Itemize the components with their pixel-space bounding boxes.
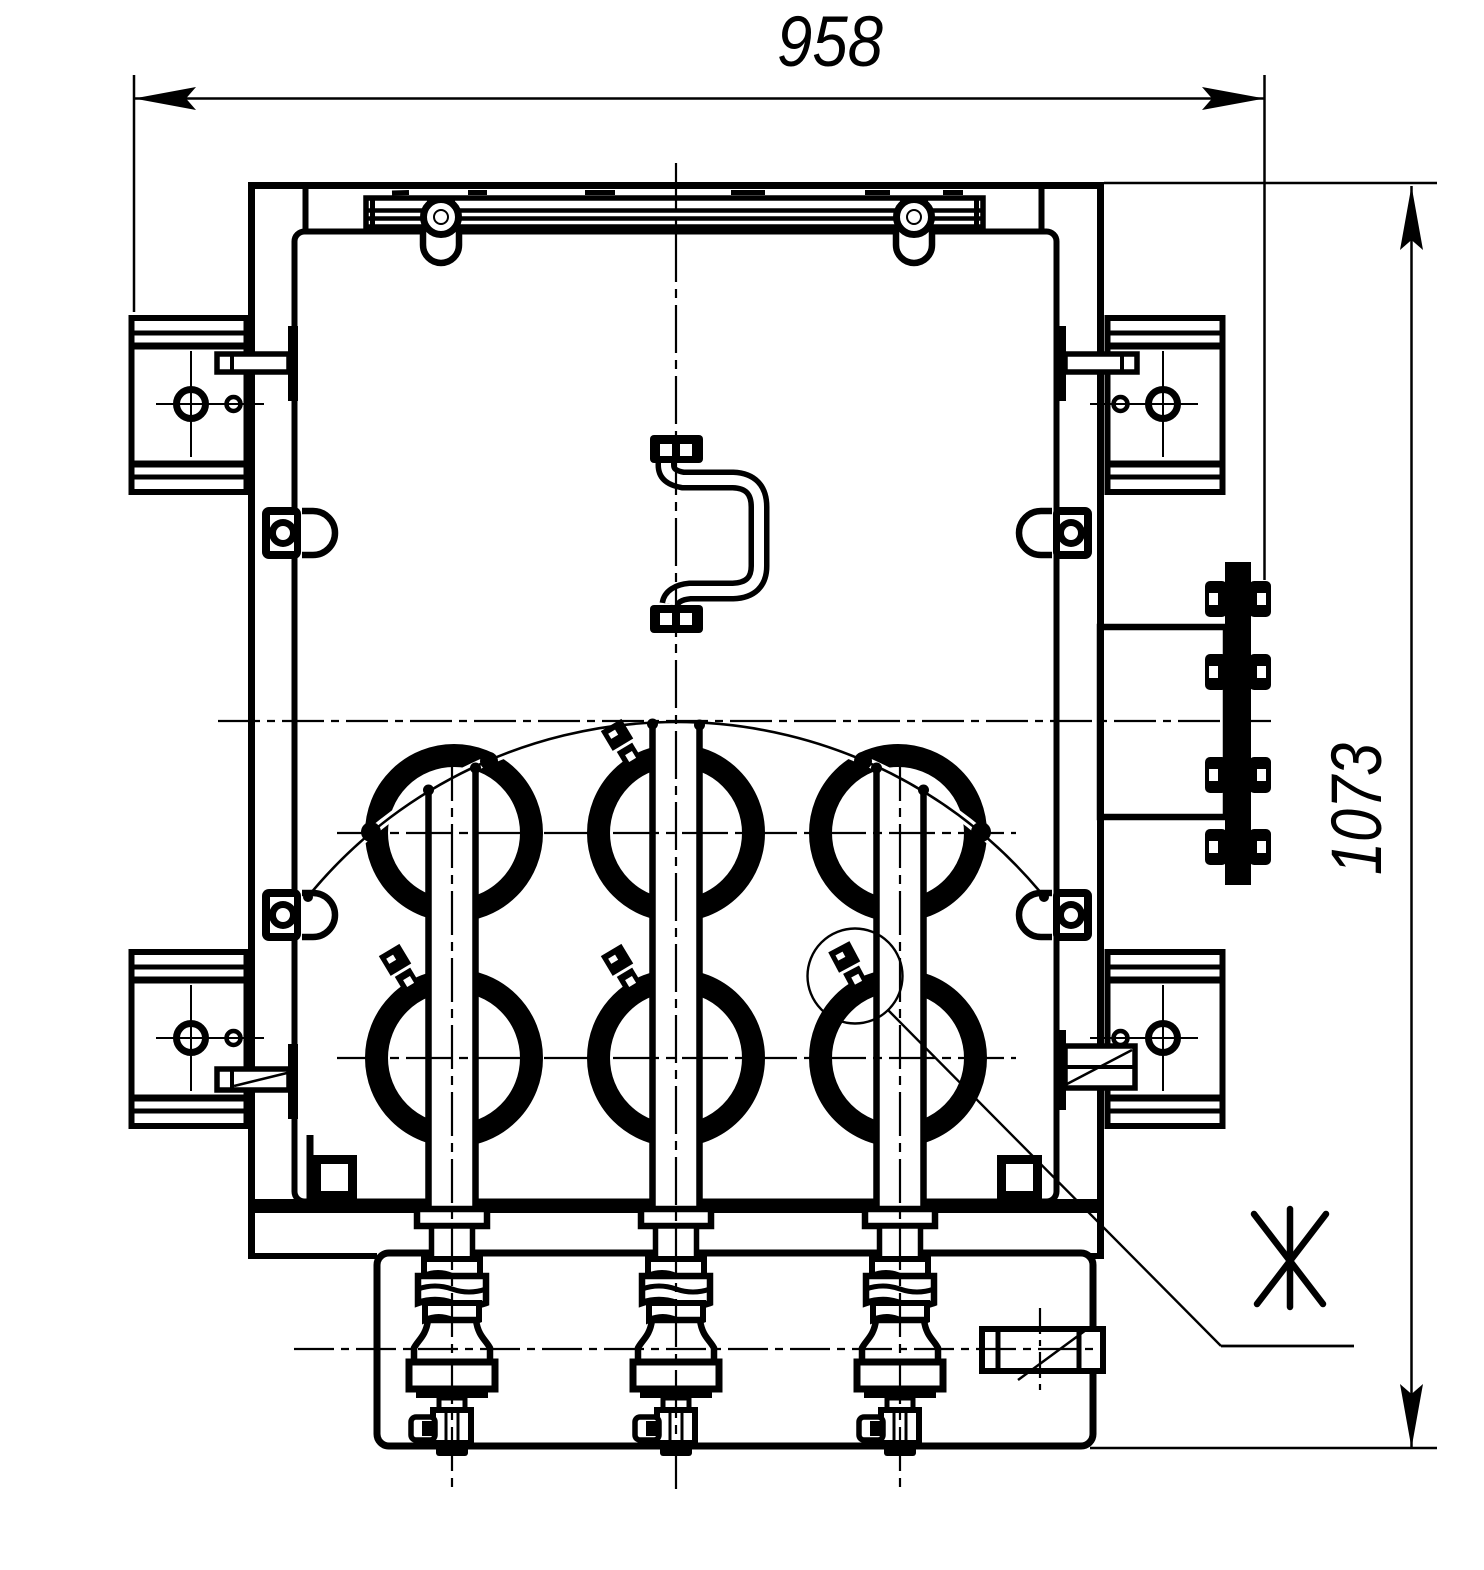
dimension 1073 extension line top [1104, 182, 1437, 185]
main horizontal centerline [218, 720, 1271, 722]
bottom shelf left [248, 1253, 377, 1259]
flange bolts [1205, 581, 1271, 865]
terminal clip on bottom-left coil [379, 944, 426, 1001]
dimension line 958 [134, 97, 1265, 100]
mounting bracket lower-left [132, 952, 265, 1126]
tank rim arc [306, 722, 1046, 899]
tab lower-right [1056, 1030, 1135, 1110]
tank rim arc white gap over side rings [340, 722, 1012, 861]
lifting lug lower-right [1019, 889, 1092, 941]
corner gusset square right [997, 1155, 1042, 1200]
corner gusset square left [312, 1155, 357, 1200]
tab lower-left [217, 1044, 298, 1119]
coil row centerline bottom [337, 1057, 1016, 1059]
coil row centerline top [337, 832, 1016, 834]
top clamping rail [366, 198, 983, 227]
svg-text:958: 958 [777, 3, 883, 82]
outer tank body bottom band [250, 1199, 1104, 1213]
conductor rod right [877, 766, 924, 1209]
bottom terminal box [377, 1253, 1093, 1446]
hidden line dashes under top edge [392, 190, 963, 196]
bottom shelf right [1090, 1253, 1104, 1259]
dimension 958 extension line right [1263, 75, 1266, 580]
dimension 958 extension line left [133, 75, 136, 312]
arrowhead left of 958 [134, 87, 196, 110]
arc junction dots [303, 719, 1049, 903]
mounting bracket upper-left [132, 318, 265, 492]
side flange box right [1100, 627, 1226, 817]
svg-text:1073: 1073 [1318, 743, 1397, 875]
coil rings [377, 756, 976, 1136]
drain plug cylinder [982, 1329, 1103, 1380]
lifting lug mid-right [1019, 507, 1092, 559]
bushing right [857, 1209, 943, 1456]
lifting lug lower-left [262, 889, 335, 941]
rail clamp bolt left [423, 198, 459, 263]
bushing left [409, 1209, 495, 1456]
cover step right [1039, 189, 1045, 231]
arrowhead top of 1073 [1400, 186, 1423, 250]
lifting lug mid-left [262, 507, 335, 559]
conductor rod center [653, 724, 700, 1209]
inner corner stiffener line left [307, 1135, 314, 1203]
outer tank body right wall [1097, 182, 1104, 1256]
cover step left [303, 189, 309, 231]
centerlines [218, 163, 1271, 1493]
dimension 1073 extension line bottom [1090, 1447, 1437, 1450]
bushing center [633, 1209, 719, 1456]
conductor rod left [429, 766, 476, 1209]
bushing row centerline [294, 1348, 1105, 1350]
terminal flange bar [1225, 562, 1251, 885]
detail circle [808, 929, 903, 1024]
cover plate (inner panel) [295, 232, 1057, 1202]
arrowhead bottom of 1073 [1400, 1384, 1423, 1448]
drain plug centerline [1039, 1308, 1041, 1392]
phase centerline center [675, 163, 677, 1493]
outer tank body top edge [250, 182, 1104, 189]
terminal clip on bottom-right coil [828, 941, 874, 998]
terminal clip on bottom-center coil [601, 944, 648, 1001]
central jumper pipe [650, 435, 759, 633]
mounting bracket upper-right [1090, 318, 1223, 492]
tab upper-right [1056, 326, 1137, 401]
terminal clip on top-center coil [601, 719, 648, 776]
phase centerline left [451, 757, 453, 1493]
outer tank body left wall [248, 182, 255, 1256]
mounting bracket lower-right [1090, 952, 1223, 1126]
dimension line 1073 [1410, 186, 1413, 1448]
arrowhead right of 958 [1202, 87, 1265, 110]
detail label Zhe [1254, 1209, 1326, 1307]
phase centerline right [899, 757, 901, 1493]
rail clamp bolt right [896, 198, 932, 263]
tab upper-left [217, 326, 298, 401]
leader line to detail [888, 1010, 1354, 1346]
